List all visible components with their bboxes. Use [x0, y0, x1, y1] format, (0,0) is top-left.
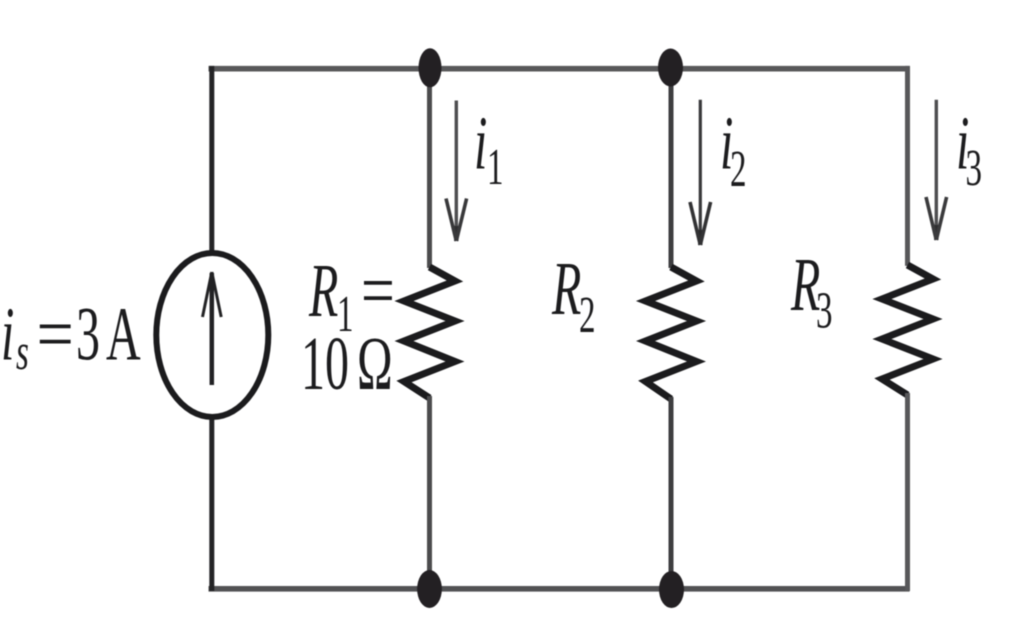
svg-text:2: 2 [579, 287, 595, 344]
svg-text:s: s [16, 324, 29, 381]
svg-text:2: 2 [730, 141, 746, 198]
wire bottom bus [209, 586, 910, 592]
resistor R1 zigzag [404, 267, 455, 398]
label R3 [790, 242, 832, 340]
svg-text:Ω: Ω [357, 321, 393, 406]
wire R2 branch upper stem [669, 68, 674, 268]
svg-text:10: 10 [301, 321, 349, 406]
current arrow i1 [446, 101, 467, 242]
node dot top R1 [419, 48, 442, 87]
svg-text:R: R [551, 246, 581, 331]
svg-text:3: 3 [966, 140, 982, 197]
svg-text:3: 3 [816, 282, 832, 339]
wire R1 branch lower stem [427, 396, 432, 589]
label R2 [551, 246, 595, 344]
label i2 [720, 100, 746, 198]
svg-text:i: i [474, 100, 487, 185]
svg-text:=: = [37, 293, 74, 376]
wire top bus [209, 66, 910, 72]
wire right branch upper (R3 stem) [905, 66, 910, 266]
label i3 [956, 100, 982, 197]
svg-text:A: A [106, 291, 141, 376]
svg-text:i: i [1, 291, 14, 376]
wire left branch upper [209, 66, 214, 255]
svg-text:3: 3 [76, 291, 100, 376]
wire R2 branch lower stem [669, 397, 674, 589]
label 10 ohm [301, 321, 393, 406]
node dot top R2 [658, 49, 683, 87]
node dot bottom R1 [417, 570, 442, 608]
current source arrow (up) [203, 272, 222, 385]
current arrow i2 [690, 100, 711, 245]
label R1 = [308, 248, 395, 343]
svg-text:1: 1 [487, 139, 503, 196]
resistor R3 zigzag [882, 265, 933, 395]
wire right branch lower (R3 stem) [905, 393, 910, 591]
wire R1 branch upper stem [427, 68, 432, 268]
wire left branch lower [209, 415, 214, 591]
resistor R2 zigzag [646, 267, 697, 399]
node dot bottom R2 [659, 571, 684, 608]
current arrow i3 [926, 100, 947, 240]
label i1 [474, 100, 503, 196]
label is = 3 A [1, 291, 141, 381]
current source IS circle [156, 253, 268, 417]
